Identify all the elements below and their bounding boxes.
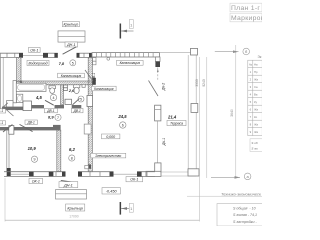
washing machine [7, 101, 14, 108]
svg-text:Жи: Жи [254, 77, 259, 81]
toilet (bathroom) [49, 86, 56, 94]
door ДК-2 dashes [157, 68, 159, 81]
label 0,000 [102, 134, 120, 139]
svg-text:9240: 9240 [202, 79, 206, 87]
label ДВ-1 (left partial 2) [0, 121, 6, 125]
interior wall vertical (left of room 5) [17, 57, 21, 81]
bottom wall rightmost [137, 172, 155, 177]
svg-text:17090: 17090 [69, 215, 79, 219]
bottom wall right of door [78, 172, 114, 177]
svg-text:Са: Са [254, 85, 258, 89]
door leaf room9 left [3, 125, 12, 133]
svg-text:На: На [254, 62, 258, 66]
room circle 6 [120, 122, 126, 128]
schedule summary box [250, 139, 262, 152]
door leaf room9 right [20, 124, 33, 131]
svg-text:Технико-экономическ: Технико-экономическ [221, 191, 262, 196]
bottom dimension line [5, 215, 200, 221]
section mark 1 (top) [120, 20, 134, 39]
kitchen boxes [64, 85, 68, 91]
svg-text:3640: 3640 [230, 109, 234, 117]
door frame hall/room9 [9, 126, 14, 135]
extension line left [4, 178, 6, 222]
door opening in central wall [87, 96, 93, 107]
door leaf ДН-1 (bottom) [61, 180, 76, 182]
svg-text:В-1: В-1 [0, 109, 3, 113]
label Канализация (top right) [117, 60, 144, 65]
svg-text:ДК-2: ДК-2 [162, 83, 166, 92]
svg-text:Электричество: Электричество [95, 154, 121, 158]
room circle 8 [69, 155, 75, 161]
svg-text:Канализация: Канализация [120, 61, 141, 65]
svg-text:ДВ-1: ДВ-1 [27, 121, 35, 125]
svg-text:5: 5 [72, 61, 74, 65]
extension line right [199, 57, 201, 222]
bottom exterior wall [4, 172, 66, 177]
svg-text:4,5: 4,5 [35, 95, 42, 100]
junction boxes at central wall top [93, 58, 96, 62]
door leaf room5 to room6 [85, 70, 93, 81]
right wall pier upper (white) [155, 105, 161, 121]
room circle 3 [78, 96, 84, 102]
bathtub [16, 83, 46, 91]
terrace column bottom [188, 169, 199, 176]
техн-экон header [187, 191, 262, 196]
porch (top) outline [58, 31, 85, 42]
section mark 1 (bottom) [120, 202, 134, 215]
svg-text:Ко: Ко [254, 115, 258, 119]
vertical dimension line far right [235, 45, 237, 178]
title line 2 "Маркировка" [230, 13, 265, 22]
label ОК-1 (bottom left) [29, 178, 43, 183]
label ДВ-1 (left partial) [0, 109, 6, 113]
svg-text:ДН-1: ДН-1 [63, 183, 73, 187]
label ДН-1 (top door) [65, 42, 78, 47]
door frame bathroom [23, 101, 32, 111]
door leaf ДК-2 [149, 81, 159, 97]
label Канализация (right of wall) [92, 86, 117, 91]
door leaf far left [2, 103, 8, 109]
svg-text:Водопровод: Водопровод [29, 61, 48, 65]
svg-text:6: 6 [122, 124, 124, 128]
washbasin [17, 94, 23, 102]
svg-text:№: № [249, 62, 252, 66]
svg-text:0,000: 0,000 [106, 135, 115, 139]
svg-text:7,8: 7,8 [59, 61, 65, 66]
room circle 4 [50, 94, 56, 100]
svg-text:ОК-1: ОК-1 [30, 48, 38, 52]
svg-text:Крыльцо: Крыльцо [64, 23, 79, 27]
svg-text:Эк: Эк [258, 55, 262, 59]
label -0,450 [102, 188, 120, 194]
svg-text:-0,450: -0,450 [106, 190, 118, 194]
svg-text:S об: S об [251, 141, 258, 145]
svg-text:S жилая - 74,1: S жилая - 74,1 [233, 213, 257, 217]
svg-text:S застройки -: S застройки - [233, 220, 257, 224]
svg-text:Жи: Жи [254, 107, 259, 111]
svg-text:План 1-г: План 1-г [231, 5, 260, 12]
svg-text:Терраса: Терраса [170, 122, 183, 126]
door leaf ДН-1 (top) [63, 47, 77, 54]
dim line right pair [206, 57, 208, 178]
title line 1 "План 1-го" [230, 3, 262, 12]
door ДК-1 center line [156, 121, 158, 163]
svg-text:ОК-1: ОК-1 [32, 180, 40, 184]
wall between rooms 9 and 8 [57, 130, 61, 171]
wc sink [82, 84, 85, 87]
window opening (bottom, ОК-1) [114, 173, 138, 175]
exterior wall top-left [0, 53, 23, 58]
svg-text:2,6: 2,6 [68, 89, 75, 93]
svg-text:8,9: 8,9 [48, 115, 54, 120]
svg-text:S жи: S жи [251, 146, 258, 150]
label Электричество [91, 153, 126, 158]
terrace outline [160, 53, 196, 176]
label ДН-1 (bottom) [59, 182, 78, 188]
hall lower wall (bathroom row bottom) [2, 105, 81, 110]
small box left of central wall bottom [85, 165, 89, 168]
room schedule table [248, 55, 262, 136]
svg-text:21,4: 21,4 [167, 114, 177, 119]
room circle 9 [31, 156, 37, 162]
wall left of bathtub [13, 81, 16, 103]
техн-экон box [217, 204, 262, 226]
exterior wall top middle (window) [43, 53, 58, 58]
right wall pier lower [155, 163, 161, 172]
label Канализация (middle) [58, 73, 85, 78]
svg-text:Канализация: Канализация [94, 87, 114, 91]
svg-text:Крыльцо: Крыльцо [67, 206, 83, 210]
canalisation drain symbol [107, 57, 110, 60]
svg-text:8: 8 [71, 157, 73, 161]
svg-text:5: 5 [80, 98, 82, 102]
svg-text:10,9: 10,9 [28, 146, 37, 151]
axis leader top (б) [215, 48, 250, 55]
svg-text:Канализация: Канализация [61, 74, 82, 78]
interior wall vertical central [88, 57, 92, 171]
exterior wall top-right (log wall with ticks) [92, 53, 160, 57]
terrace column middle [191, 104, 198, 113]
label ДВ-1 (bath door) [44, 108, 57, 113]
svg-text:4: 4 [53, 96, 55, 100]
terrace column top [191, 48, 198, 55]
central wall bottom pier [88, 164, 91, 168]
label ДВ-1 (room9 door) [25, 120, 37, 125]
door leaf left room [5, 109, 14, 117]
WC dividing wall [61, 85, 64, 105]
door leaf WC [73, 98, 80, 104]
svg-text:В-1: В-1 [0, 121, 3, 125]
svg-text:ДК-1: ДК-1 [162, 138, 166, 147]
left exterior wall [1, 53, 11, 176]
interior wall horizontal (above bathroom) [17, 81, 93, 85]
svg-text:7: 7 [57, 116, 59, 120]
svg-text:ДВ-1: ДВ-1 [73, 109, 81, 113]
label Водопровод [27, 60, 49, 65]
toilet (WC) [73, 85, 79, 94]
svg-text:Маркиров: Маркиров [231, 15, 262, 22]
porch (bottom) [56, 190, 87, 199]
svg-text:ДН-1: ДН-1 [66, 43, 75, 47]
svg-text:Пр: Пр [254, 70, 258, 74]
label Крыльцо (bottom) [66, 204, 85, 211]
svg-text:S общая - 10: S общая - 10 [233, 207, 256, 211]
door frame WC [65, 99, 72, 104]
svg-text:ОК-1: ОК-1 [130, 178, 138, 182]
svg-text:Жи: Жи [254, 122, 259, 126]
hall bottom wall y127 [0, 125, 61, 130]
svg-text:6,2: 6,2 [69, 147, 75, 152]
top-right corner pier [155, 57, 160, 67]
label ДВ-1 (wc door) [71, 108, 83, 113]
svg-text:Ва: Ва [254, 92, 258, 96]
svg-text:24,5: 24,5 [117, 114, 127, 119]
svg-text:9: 9 [34, 158, 36, 162]
wall segment right of entrance door [77, 53, 93, 58]
door leaf bathroom [45, 100, 54, 105]
svg-text:ДВ-1: ДВ-1 [46, 109, 54, 113]
room circle 7 [55, 114, 61, 120]
label Крыльцо (top) [62, 22, 79, 27]
room circle 5 [70, 60, 76, 66]
bottom right corner wall [146, 171, 161, 176]
svg-text:3350: 3350 [195, 79, 199, 87]
label ОК-1 (top) [29, 47, 41, 52]
svg-text:Жи: Жи [254, 130, 259, 134]
label Терраса [167, 120, 186, 125]
label ОК-1 (bottom middle) [126, 177, 143, 182]
corner pier at wall junction [20, 81, 22, 86]
door pier dark [92, 78, 95, 85]
door frame hall/room6 (central wall) [84, 124, 91, 134]
axis leader bottom (а) [211, 173, 251, 180]
window opening below ОК-1 [23, 54, 43, 56]
